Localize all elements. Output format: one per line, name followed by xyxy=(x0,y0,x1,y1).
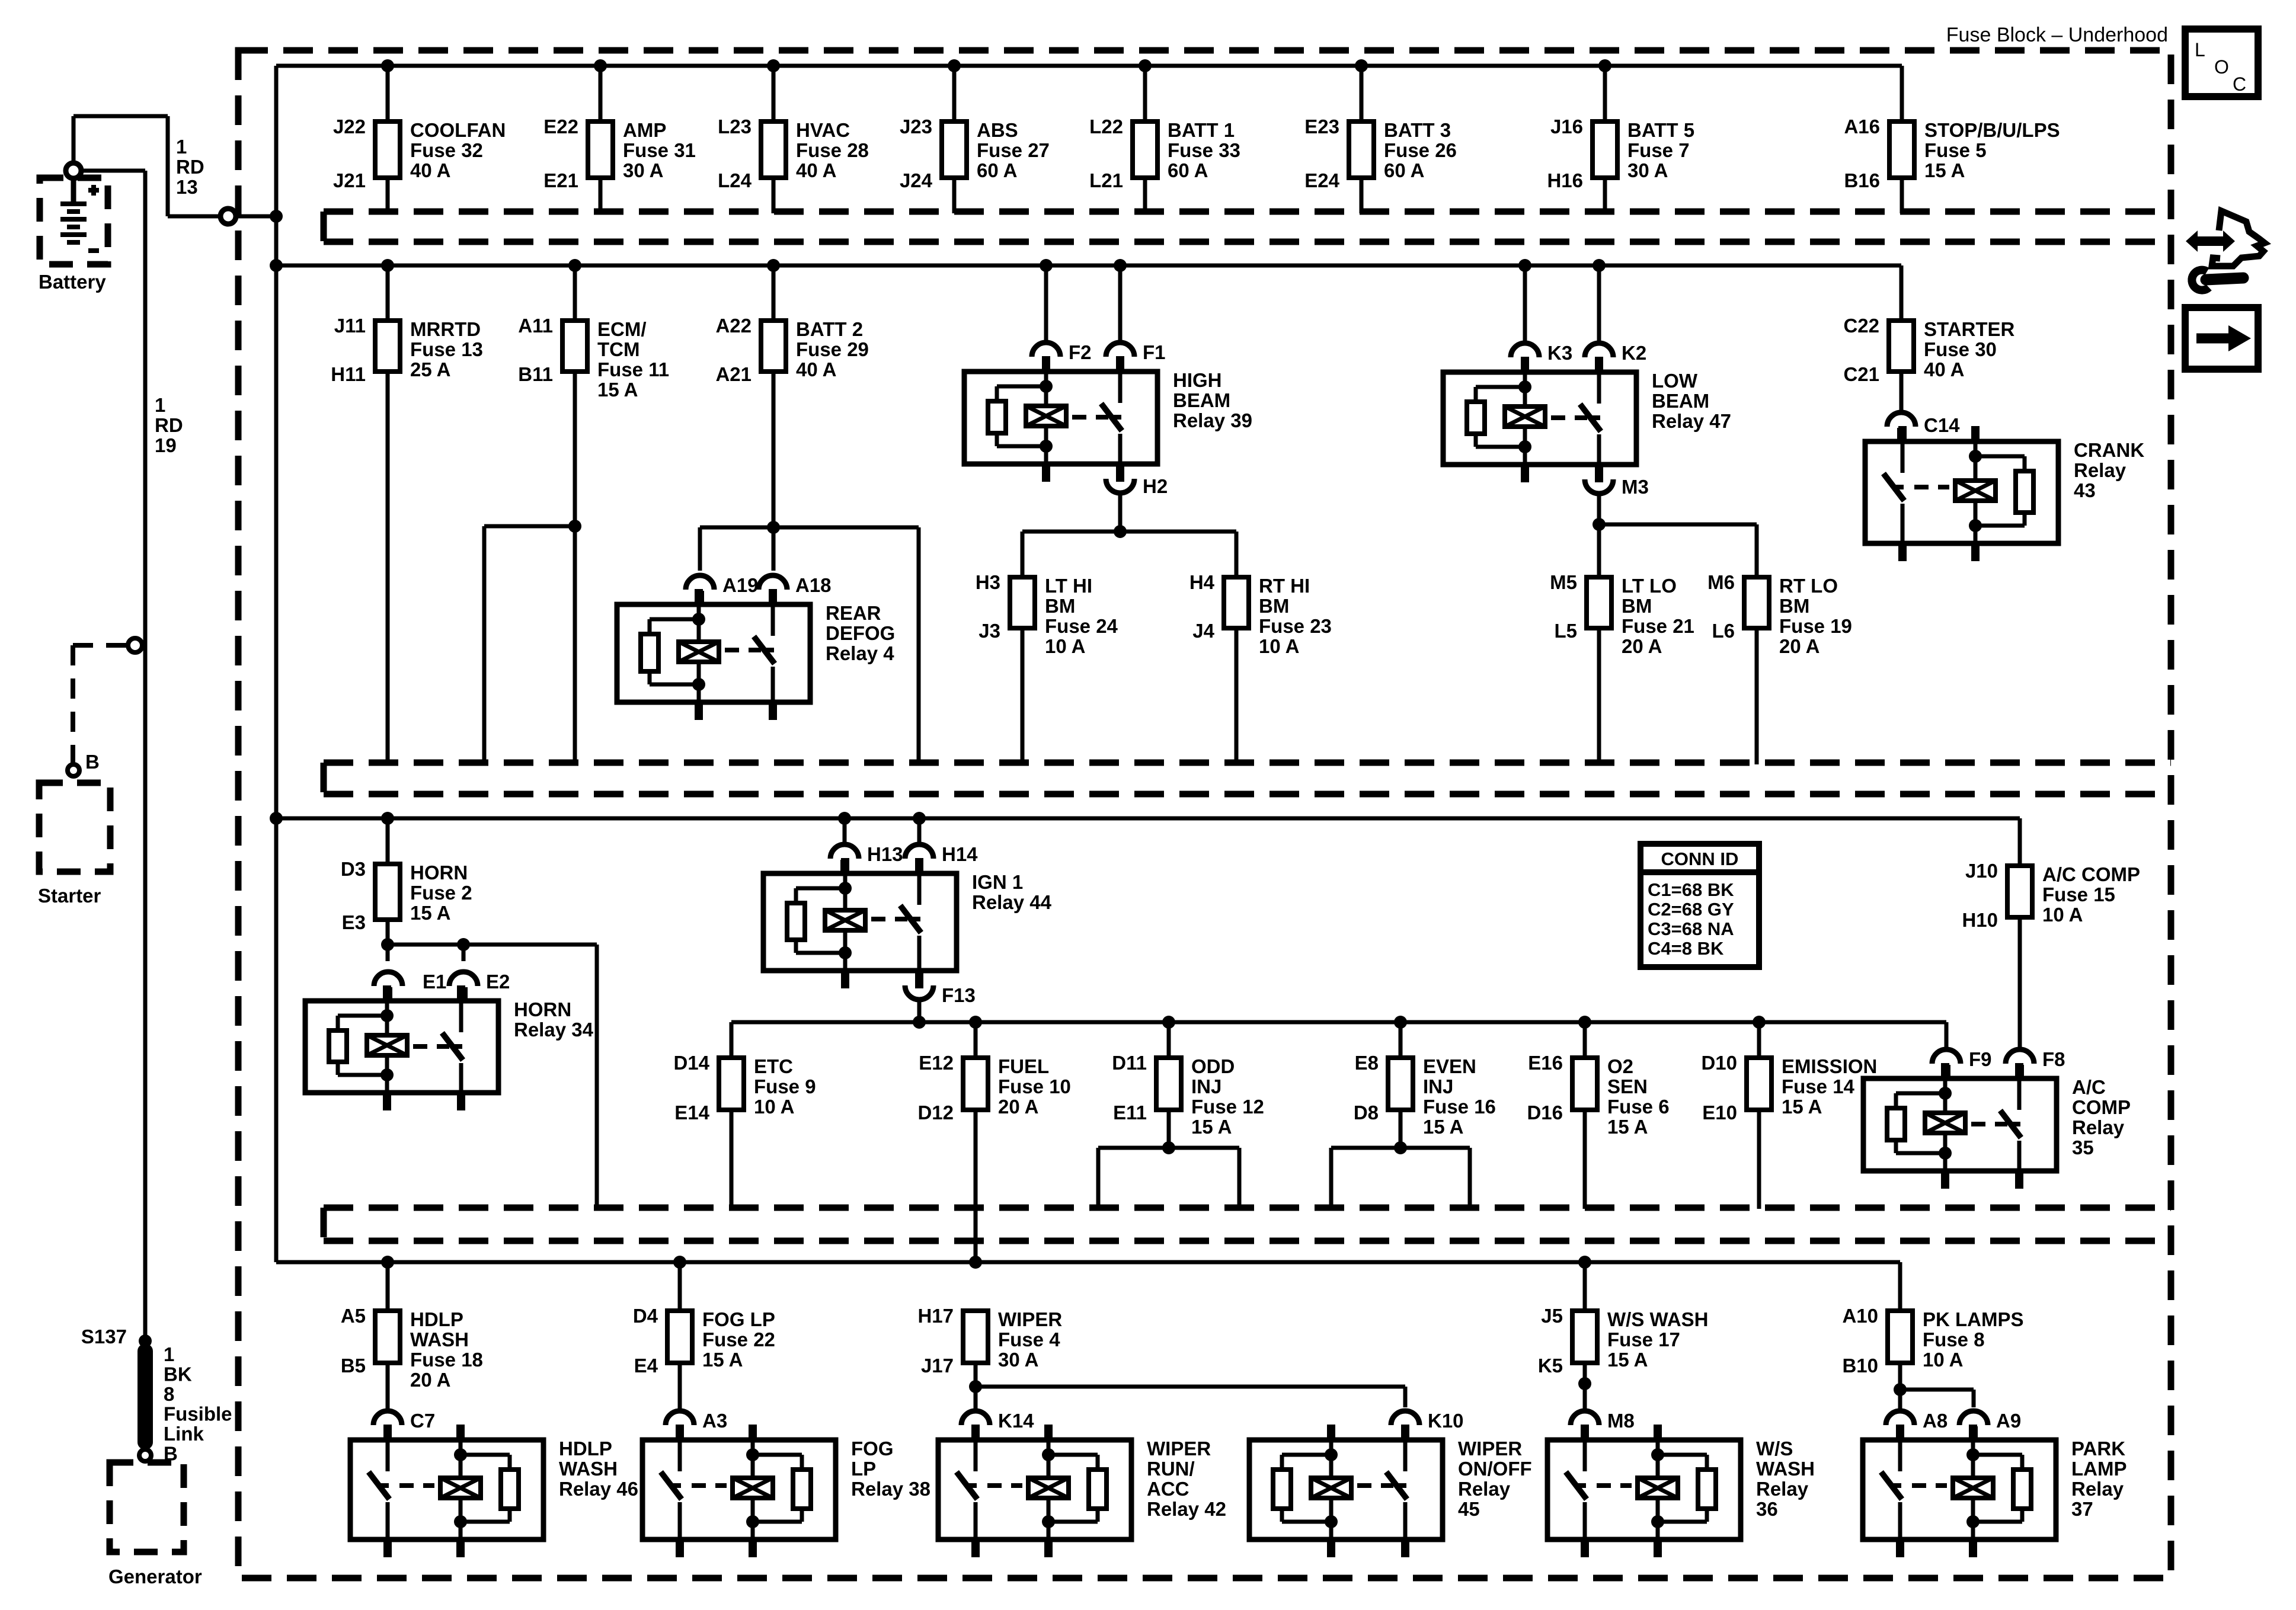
svg-text:H13: H13 xyxy=(867,843,903,865)
svg-text:Relay 38: Relay 38 xyxy=(851,1478,930,1500)
svg-text:BATT 3: BATT 3 xyxy=(1384,119,1451,141)
svg-text:ODD: ODD xyxy=(1191,1055,1235,1077)
svg-text:36: 36 xyxy=(1756,1498,1778,1520)
wire W/S WASH fuse to M8 xyxy=(1583,1363,1587,1409)
svg-text:C4=8 BK: C4=8 BK xyxy=(1648,938,1724,959)
svg-text:E21: E21 xyxy=(543,169,578,191)
svg-text:J24: J24 xyxy=(900,169,933,191)
wire bus1 to fuse COOLFAN xyxy=(386,66,390,121)
wire HDLP WASH fuse to C7 xyxy=(386,1363,390,1409)
junction bus3 / H13 xyxy=(838,812,851,825)
connector A19 xyxy=(686,574,759,604)
svg-text:Fuse 26: Fuse 26 xyxy=(1384,139,1457,161)
svg-text:Fuse 21: Fuse 21 xyxy=(1622,615,1694,637)
svg-text:Fuse 18: Fuse 18 xyxy=(410,1349,483,1371)
svg-text:WIPER: WIPER xyxy=(1147,1438,1211,1459)
svg-text:Relay 46: Relay 46 xyxy=(559,1478,638,1500)
svg-text:WASH: WASH xyxy=(559,1458,618,1480)
svg-text:E11: E11 xyxy=(1113,1102,1147,1124)
svg-text:M3: M3 xyxy=(1622,476,1649,498)
svg-text:Fuse 23: Fuse 23 xyxy=(1259,615,1332,637)
fuse EVEN (E8/D8) xyxy=(1354,1052,1496,1138)
relay PARK LAMP Relay 37 xyxy=(1863,1425,2127,1557)
svg-text:60 A: 60 A xyxy=(1168,159,1208,181)
junction HORN output / E1 xyxy=(381,938,394,951)
svg-text:40 A: 40 A xyxy=(1924,359,1964,380)
svg-text:19: 19 xyxy=(155,434,177,456)
svg-text:WASH: WASH xyxy=(410,1329,469,1350)
svg-text:W/S: W/S xyxy=(1756,1438,1793,1459)
svg-text:ON/OFF: ON/OFF xyxy=(1458,1458,1532,1480)
svg-text:BATT 2: BATT 2 xyxy=(796,318,863,340)
svg-text:30 A: 30 A xyxy=(998,1349,1038,1371)
svg-text:MRRTD: MRRTD xyxy=(410,318,481,340)
svg-text:Fuse 14: Fuse 14 xyxy=(1782,1076,1855,1097)
wire bus 1 (battery positive distribution) xyxy=(276,64,1902,68)
wire bus1 to fuse HVAC xyxy=(772,66,776,121)
wire bus3b to fuse ODD xyxy=(1167,1022,1171,1058)
wire fuse BATT 5 to connector boundary xyxy=(1603,178,1607,213)
svg-text:Relay: Relay xyxy=(1756,1478,1809,1500)
wire left feed rail xyxy=(276,66,388,1262)
connector H2 xyxy=(1106,464,1168,497)
svg-text:D3: D3 xyxy=(341,858,366,880)
svg-text:E12: E12 xyxy=(919,1052,954,1074)
svg-text:IGN 1: IGN 1 xyxy=(972,871,1023,893)
svg-text:Fuse 11: Fuse 11 xyxy=(597,359,669,380)
wire O2 SEN output xyxy=(1583,1110,1587,1209)
junction bus1 / BATT 1 xyxy=(1139,59,1152,72)
svg-text:K5: K5 xyxy=(1538,1355,1563,1377)
svg-text:O: O xyxy=(2214,56,2229,78)
junction WIPER output / K14 xyxy=(969,1380,982,1393)
svg-text:Fusible: Fusible xyxy=(164,1403,232,1425)
svg-text:L24: L24 xyxy=(718,169,752,191)
svg-text:40 A: 40 A xyxy=(410,159,450,181)
svg-text:L: L xyxy=(2195,39,2205,60)
splice S137 xyxy=(81,1326,152,1347)
svg-text:PK LAMPS: PK LAMPS xyxy=(1923,1308,2024,1330)
node B starter xyxy=(68,751,100,776)
svg-text:BM: BM xyxy=(1779,595,1809,617)
junction rail / bus2 xyxy=(270,259,283,272)
svg-text:E4: E4 xyxy=(634,1355,658,1377)
svg-text:Fuse 10: Fuse 10 xyxy=(998,1076,1071,1097)
wire BATT 2 fuse output to rear defog feed xyxy=(700,372,919,764)
svg-text:Relay 39: Relay 39 xyxy=(1173,409,1252,431)
wire EVEN INJ output branch xyxy=(1331,1110,1470,1209)
svg-text:A9: A9 xyxy=(1996,1410,2021,1432)
wire bus3b to fuse EMISSION xyxy=(1757,1022,1761,1058)
svg-text:F13: F13 xyxy=(942,984,976,1006)
wire bus1 to fuse BATT 3 xyxy=(1360,66,1364,121)
wire RT HI BM output xyxy=(1235,628,1239,764)
svg-text:E22: E22 xyxy=(543,116,578,137)
junction M3 branch xyxy=(1593,518,1606,531)
svg-text:M8: M8 xyxy=(1607,1410,1635,1432)
wire LT LO BM output xyxy=(1597,628,1601,764)
fuse ODD (D11/E11) xyxy=(1112,1052,1264,1138)
svg-text:Fuse 7: Fuse 7 xyxy=(1627,139,1690,161)
connector H14 xyxy=(905,843,978,873)
connector F9 xyxy=(1932,1048,1992,1078)
svg-text:F1: F1 xyxy=(1143,341,1166,363)
svg-text:25 A: 25 A xyxy=(410,359,450,380)
wire bus2 to fuse MRRTD xyxy=(386,265,390,321)
svg-text:C21: C21 xyxy=(1843,363,1879,385)
svg-text:E2: E2 xyxy=(486,971,510,993)
svg-text:B16: B16 xyxy=(1844,169,1880,191)
node B generator xyxy=(139,1449,151,1461)
wire ECM/TCM fuse output branch xyxy=(484,372,575,764)
junction bus2 / F2 xyxy=(1040,259,1053,272)
wire ETC output xyxy=(730,1110,734,1209)
junction bus4 x=2674 xyxy=(1578,1256,1591,1269)
connector F13 xyxy=(905,971,976,1006)
svg-text:20 A: 20 A xyxy=(1779,635,1819,657)
relay REAR DEFOG Relay 4 xyxy=(617,589,895,720)
connector F8 xyxy=(2006,1048,2065,1078)
svg-text:BATT 5: BATT 5 xyxy=(1627,119,1694,141)
wire bus3 to HORN fuse xyxy=(386,818,390,864)
svg-text:1: 1 xyxy=(164,1343,174,1365)
CONN ID table xyxy=(1641,844,1759,967)
fuse ETC (D14/E14) xyxy=(673,1052,816,1124)
svg-text:BM: BM xyxy=(1259,595,1289,617)
wire ODD INJ output branch xyxy=(1098,1110,1239,1209)
junction bus4 x=654 xyxy=(381,1256,394,1269)
svg-text:RUN/: RUN/ xyxy=(1147,1458,1195,1480)
relay IGN 1 Relay 44 xyxy=(763,858,1052,988)
wire bus2 to F1 xyxy=(1118,265,1123,341)
wire bus3 to H14 xyxy=(917,818,922,843)
svg-text:37: 37 xyxy=(2071,1498,2093,1520)
fuse block underhood dashed outline xyxy=(238,50,2171,1578)
svg-text:PARK: PARK xyxy=(2071,1438,2125,1459)
wire bus1 to fuse AMP xyxy=(599,66,603,121)
connector A8 xyxy=(1886,1410,1948,1440)
svg-text:M5: M5 xyxy=(1550,571,1577,593)
svg-text:B5: B5 xyxy=(341,1355,366,1377)
fuse HDLP (A5/B5) xyxy=(341,1305,483,1391)
svg-text:Fuse 30: Fuse 30 xyxy=(1924,338,1997,360)
junction ODD INJ branch xyxy=(1162,1141,1175,1154)
svg-text:O2: O2 xyxy=(1607,1055,1633,1077)
wire bus2 to fuse ECM/ xyxy=(573,265,577,321)
junction PK LAMPS / A8 A9 xyxy=(1894,1383,1907,1396)
svg-text:FOG: FOG xyxy=(851,1438,894,1459)
svg-text:Fuse 33: Fuse 33 xyxy=(1168,139,1240,161)
svg-text:D8: D8 xyxy=(1354,1102,1379,1124)
svg-text:H11: H11 xyxy=(331,363,366,385)
svg-text:STARTER: STARTER xyxy=(1924,318,2015,340)
svg-text:ABS: ABS xyxy=(977,119,1018,141)
svg-text:Fuse 28: Fuse 28 xyxy=(796,139,869,161)
fuse ABS (J23/J24) xyxy=(900,116,1050,191)
svg-text:K3: K3 xyxy=(1547,342,1572,364)
svg-text:60 A: 60 A xyxy=(1384,159,1424,181)
connector C7 xyxy=(373,1410,435,1440)
svg-text:A8: A8 xyxy=(1923,1410,1948,1432)
junction bus3b / EMISSION xyxy=(1753,1016,1766,1029)
junction bus3 / H14 xyxy=(913,812,926,825)
svg-text:Fuse 2: Fuse 2 xyxy=(410,882,472,904)
fuse HORN (D3/E3) xyxy=(341,858,472,933)
battery xyxy=(40,163,108,264)
svg-text:Fuse 24: Fuse 24 xyxy=(1045,615,1118,637)
svg-text:E8: E8 xyxy=(1355,1052,1379,1074)
svg-text:Relay 47: Relay 47 xyxy=(1652,410,1731,432)
svg-text:L6: L6 xyxy=(1712,620,1735,642)
relay WIPER RUN/ACC Relay 42 xyxy=(938,1425,1226,1557)
svg-text:E1: E1 xyxy=(423,971,446,993)
wire bus3b to fuse O2 xyxy=(1583,1022,1587,1058)
svg-text:C1=68 BK: C1=68 BK xyxy=(1648,879,1734,900)
svg-text:D16: D16 xyxy=(1527,1102,1563,1124)
connector F2 xyxy=(1032,341,1092,372)
svg-text:BM: BM xyxy=(1045,595,1075,617)
svg-text:LOW: LOW xyxy=(1652,370,1698,392)
wire LT HI BM output xyxy=(1021,628,1025,764)
svg-text:BATT 1: BATT 1 xyxy=(1168,119,1235,141)
wire bus3b to fuse EVEN xyxy=(1399,1022,1403,1058)
svg-text:J3: J3 xyxy=(978,620,1000,642)
wire bus1 to fuse ABS xyxy=(952,66,957,121)
wire bus4 to HDLP WASH fuse xyxy=(386,1262,390,1311)
fuse row internal dashed boundary 2 xyxy=(324,763,2171,794)
connector A18 xyxy=(759,574,832,604)
relay W/S WASH Relay 36 xyxy=(1547,1425,1815,1557)
fuse STOP/B/U/LPS (A16/B16) xyxy=(1844,116,2060,191)
svg-text:15 A: 15 A xyxy=(1782,1096,1822,1118)
svg-text:10 A: 10 A xyxy=(1923,1349,1963,1371)
svg-text:Fuse 17: Fuse 17 xyxy=(1607,1329,1680,1350)
svg-text:35: 35 xyxy=(2072,1137,2094,1158)
svg-text:BK: BK xyxy=(164,1363,192,1385)
connector C14 xyxy=(1887,412,1960,441)
svg-text:Fuse 8: Fuse 8 xyxy=(1923,1329,1985,1350)
svg-text:LT HI: LT HI xyxy=(1045,575,1092,597)
fuse MRRTD (J11/H11) xyxy=(331,315,483,385)
svg-text:C3=68 NA: C3=68 NA xyxy=(1648,918,1734,939)
LOC reference box xyxy=(2185,29,2258,97)
svg-text:HDLP: HDLP xyxy=(410,1308,463,1330)
svg-text:20 A: 20 A xyxy=(998,1096,1038,1118)
svg-text:Fuse 29: Fuse 29 xyxy=(796,338,869,360)
svg-text:COOLFAN: COOLFAN xyxy=(410,119,506,141)
junction bus3b / FUEL xyxy=(969,1016,982,1029)
svg-text:Link: Link xyxy=(164,1423,204,1445)
junction bus4 x=1147 xyxy=(673,1256,686,1269)
svg-text:30 A: 30 A xyxy=(1627,159,1668,181)
wire F13 to bus 3b xyxy=(917,1000,922,1022)
svg-text:AMP: AMP xyxy=(623,119,666,141)
relay CRANK Relay 43 xyxy=(1865,426,2144,561)
icon forward arrow box xyxy=(2185,308,2258,369)
svg-text:C14: C14 xyxy=(1924,414,1960,436)
wire bus 4 xyxy=(276,1260,1900,1265)
svg-text:CRANK: CRANK xyxy=(2074,439,2144,461)
wire bus2 to K3 xyxy=(1523,265,1527,341)
wire fuse AMP to connector boundary xyxy=(599,178,603,213)
svg-text:20 A: 20 A xyxy=(410,1369,450,1391)
svg-text:Fuse 22: Fuse 22 xyxy=(702,1329,775,1350)
svg-text:Fuse 6: Fuse 6 xyxy=(1607,1096,1670,1118)
fusible link xyxy=(137,1343,232,1465)
svg-text:A5: A5 xyxy=(341,1305,366,1327)
fuse STARTER (C22/C21) xyxy=(1843,315,2014,385)
svg-text:F8: F8 xyxy=(2042,1048,2065,1070)
wire fuse STOP/B/U/LPS to connector boundary xyxy=(1900,178,1904,213)
svg-text:K2: K2 xyxy=(1622,342,1646,364)
svg-text:43: 43 xyxy=(2074,479,2096,501)
svg-text:BM: BM xyxy=(1622,595,1652,617)
svg-text:Fuse 4: Fuse 4 xyxy=(998,1329,1060,1350)
svg-text:B11: B11 xyxy=(518,363,553,385)
svg-text:EMISSION: EMISSION xyxy=(1782,1055,1877,1077)
icon wrench xyxy=(2192,270,2243,290)
connector E2 xyxy=(449,971,510,1001)
starter xyxy=(39,783,110,872)
junction H2 branch xyxy=(1114,525,1127,538)
svg-text:15 A: 15 A xyxy=(1924,159,1965,181)
junction bus3b / ODD xyxy=(1162,1016,1175,1029)
svg-text:BEAM: BEAM xyxy=(1652,390,1709,412)
svg-text:15 A: 15 A xyxy=(1191,1116,1232,1138)
svg-text:M6: M6 xyxy=(1707,571,1735,593)
junction bus1 / BATT 5 xyxy=(1598,59,1611,72)
junction ECM/TCM branch xyxy=(568,520,581,533)
svg-text:J5: J5 xyxy=(1541,1305,1563,1327)
wire bus3 to H13 xyxy=(843,818,847,843)
wire FOG LP fuse to A3 xyxy=(678,1363,682,1409)
svg-text:A18: A18 xyxy=(795,574,832,596)
svg-text:60 A: 60 A xyxy=(977,159,1017,181)
wire M3 to low beam fuses xyxy=(1599,494,1757,577)
junction bus3b / EVEN xyxy=(1394,1016,1407,1029)
svg-text:1: 1 xyxy=(176,136,187,158)
svg-text:L5: L5 xyxy=(1554,620,1577,642)
svg-text:E24: E24 xyxy=(1304,169,1339,191)
svg-text:FOG LP: FOG LP xyxy=(702,1308,775,1330)
svg-text:A11: A11 xyxy=(518,315,553,337)
wire bus 3b (F13 distribution) xyxy=(731,1022,1946,1058)
connector M8 xyxy=(1571,1410,1635,1440)
junction EVEN INJ branch xyxy=(1394,1141,1407,1154)
svg-text:Relay 44: Relay 44 xyxy=(972,891,1052,913)
junction bus2 / K3 xyxy=(1518,259,1531,272)
svg-text:F9: F9 xyxy=(1969,1048,1992,1070)
wire 1 RD 19 battery to S137 xyxy=(81,171,145,1341)
svg-text:Relay 34: Relay 34 xyxy=(514,1019,594,1041)
svg-text:K10: K10 xyxy=(1428,1410,1464,1432)
svg-text:STOP/B/U/LPS: STOP/B/U/LPS xyxy=(1924,119,2060,141)
svg-text:1: 1 xyxy=(155,394,165,416)
wire bus1 to fuse BATT 1 xyxy=(1143,66,1147,121)
wire H2 to headlamp fuses xyxy=(1022,493,1236,577)
svg-text:J16: J16 xyxy=(1550,116,1583,137)
svg-text:J17: J17 xyxy=(921,1355,954,1377)
svg-text:S137: S137 xyxy=(81,1326,127,1347)
connector M3 xyxy=(1585,465,1649,498)
svg-text:D11: D11 xyxy=(1112,1052,1147,1074)
svg-text:HIGH: HIGH xyxy=(1173,369,1222,391)
svg-text:15 A: 15 A xyxy=(1607,1349,1648,1371)
svg-text:HORN: HORN xyxy=(514,998,571,1020)
svg-text:L21: L21 xyxy=(1089,169,1123,191)
svg-text:10 A: 10 A xyxy=(754,1096,794,1118)
svg-text:A21: A21 xyxy=(715,363,752,385)
fuse HVAC (L23/L24) xyxy=(718,116,869,191)
svg-text:10 A: 10 A xyxy=(1259,635,1299,657)
wire fuse COOLFAN to connector boundary xyxy=(386,178,390,213)
svg-text:E23: E23 xyxy=(1304,116,1339,137)
fuse FUEL (E12/D12) xyxy=(917,1052,1070,1124)
fuse PK LAMPS (A10/B10) xyxy=(1842,1305,2023,1377)
svg-text:HDLP: HDLP xyxy=(559,1438,612,1459)
svg-text:Relay: Relay xyxy=(2072,1116,2125,1138)
connector K14 xyxy=(961,1410,1034,1440)
label 1 RD 13 xyxy=(176,136,204,198)
junction bus1 / AMP xyxy=(594,59,607,72)
relay HDLP WASH Relay 46 xyxy=(350,1425,638,1557)
svg-text:10 A: 10 A xyxy=(2042,904,2083,926)
wire bus2 to F2 xyxy=(1044,265,1048,341)
wire bus3 to A/C COMP fuse xyxy=(2018,818,2022,866)
svg-text:J11: J11 xyxy=(334,315,366,337)
fuse LT LO (M5/L5) xyxy=(1550,571,1694,657)
fuse ECM/ (A11/B11) xyxy=(518,315,669,401)
svg-text:Fuse Block – Underhood: Fuse Block – Underhood xyxy=(1946,24,2168,46)
fuse RT LO (M6/L6) xyxy=(1707,571,1852,657)
junction bus3b / F13 xyxy=(913,1016,926,1029)
svg-text:INJ: INJ xyxy=(1191,1076,1221,1097)
svg-text:A22: A22 xyxy=(715,315,752,337)
svg-text:WIPER: WIPER xyxy=(998,1308,1062,1330)
svg-text:RD: RD xyxy=(155,414,183,436)
relay A/C COMP Relay 35 xyxy=(1863,1063,2131,1189)
wire bus1 to fuse BATT 5 xyxy=(1603,66,1607,121)
svg-text:D10: D10 xyxy=(1701,1052,1737,1074)
fuse RT HI (H4/J4) xyxy=(1189,571,1332,657)
svg-text:A16: A16 xyxy=(1844,116,1880,137)
icon double arrow with component outline xyxy=(2186,211,2265,266)
svg-text:Generator: Generator xyxy=(108,1566,202,1587)
wire bus4 to FOG LP fuse xyxy=(678,1262,682,1311)
svg-text:RT HI: RT HI xyxy=(1259,575,1310,597)
svg-text:TCM: TCM xyxy=(597,338,639,360)
svg-text:8: 8 xyxy=(164,1383,174,1405)
svg-text:Battery: Battery xyxy=(39,271,106,293)
svg-text:EVEN: EVEN xyxy=(1423,1055,1476,1077)
svg-text:D4: D4 xyxy=(633,1305,658,1327)
svg-text:A10: A10 xyxy=(1842,1305,1878,1327)
svg-text:E3: E3 xyxy=(342,911,366,933)
svg-text:Relay 42: Relay 42 xyxy=(1147,1498,1226,1520)
connector F1 xyxy=(1106,341,1166,372)
relay FOG LP Relay 38 xyxy=(642,1425,930,1557)
connector E1 xyxy=(374,971,446,1001)
svg-text:E10: E10 xyxy=(1702,1102,1737,1124)
fuse WIPER (H17/J17) xyxy=(917,1305,1062,1377)
label 1 RD 19 xyxy=(155,394,183,456)
svg-text:COMP: COMP xyxy=(2072,1096,2131,1118)
fuse FOG LP (D4/E4) xyxy=(633,1305,775,1377)
svg-text:ECM/: ECM/ xyxy=(597,318,647,340)
junction bus1 / ABS xyxy=(948,59,961,72)
wire WIPER fuse output branch xyxy=(976,1363,1405,1409)
fuse BATT 2 (A22/A21) xyxy=(715,315,868,385)
